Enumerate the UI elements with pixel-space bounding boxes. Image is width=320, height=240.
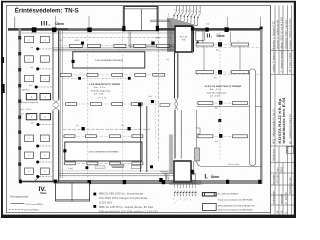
inner frame	[7, 5, 271, 212]
hall 2 rect	[65, 142, 142, 161]
fixtures row2	[60, 73, 165, 76]
interior dashed line under top wall	[63, 36, 172, 38]
fixtures row1	[69, 44, 169, 47]
label I. Ütem	[205, 174, 220, 180]
bottom-left room	[56, 183, 90, 201]
bottom wall pillars	[19, 180, 22, 184]
hall 1 rect	[73, 52, 145, 68]
cabinet 2	[159, 148, 199, 182]
right text block	[205, 85, 241, 98]
nested wire bundle cab1	[150, 18, 198, 52]
row6 mixed	[68, 164, 153, 170]
fixtures row3	[66, 103, 143, 106]
legend bottom-right	[202, 193, 254, 212]
left interior wall (double line)	[53, 31, 60, 181]
right dashed vertical	[219, 32, 221, 161]
cabinet2 wire fan	[170, 179, 201, 188]
corridor double line	[61, 31, 63, 178]
ladder dots + dash lines	[35, 47, 40, 178]
wire bundle lower	[59, 171, 196, 176]
middle corridor	[141, 106, 147, 172]
tall vertical rect right	[250, 69, 256, 166]
label III. Ütem	[41, 21, 64, 28]
breaker row under cabinet2	[175, 190, 198, 196]
title block table	[271, 5, 295, 214]
right wall	[260, 29, 262, 184]
bottom wall	[19, 180, 262, 183]
title block vertical texts	[272, 16, 292, 213]
left outer wall	[15, 16, 261, 183]
wire bundle upper	[53, 32, 175, 51]
fixture row lines	[59, 45, 261, 164]
riser bundle to cabinet2	[169, 135, 173, 174]
dashed grid lines	[88, 32, 156, 178]
mid row with squares	[63, 128, 150, 130]
right rooms fixtures	[196, 43, 249, 138]
cabinet2 approach wires	[160, 172, 168, 182]
notes bottom-center	[93, 193, 157, 214]
legend bottom-left	[9, 195, 44, 212]
breaker fan above cabinet1	[174, 6, 200, 20]
top wall	[8, 28, 262, 33]
junction box on hall2 edge	[63, 149, 66, 152]
protruding room top	[124, 6, 158, 30]
cabinet 1	[175, 26, 204, 52]
mid text block (left)	[89, 83, 120, 95]
middle wall with doors	[175, 52, 182, 159]
label IV. Ütem	[39, 186, 48, 195]
right inner boundary	[197, 107, 263, 167]
label II. Ütem	[207, 33, 225, 39]
top wall pillars	[32, 27, 263, 33]
fixtures row4	[64, 135, 143, 138]
fixtures row5	[65, 162, 143, 165]
junction box on hall1 edge	[72, 60, 75, 63]
left ladder boxes	[25, 36, 50, 81]
ladder box letters	[28, 40, 46, 174]
